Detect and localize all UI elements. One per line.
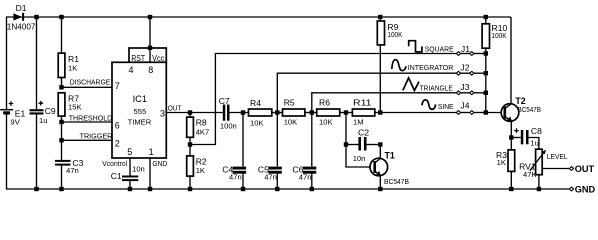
icon: sine wave bbox=[422, 100, 436, 110]
wire: SINE line to common column bbox=[474, 112, 486, 114]
svg-text:47n: 47n bbox=[299, 172, 312, 181]
wire: ground bottom rail bbox=[6, 188, 569, 190]
svg-text:Vcc: Vcc bbox=[152, 53, 165, 63]
node: R2 / ground rail bbox=[188, 187, 192, 191]
svg-text:C8: C8 bbox=[531, 126, 542, 136]
wire: R5 to R6 bbox=[305, 112, 317, 114]
svg-text:J4: J4 bbox=[460, 101, 469, 111]
svg-text:R2: R2 bbox=[196, 156, 207, 166]
node: RST/Vcc junction bbox=[148, 46, 152, 50]
capacitor C5 47n bbox=[258, 113, 282, 190]
node: J1 / column bbox=[484, 51, 488, 55]
jumper J1 bbox=[456, 44, 474, 55]
wire: discharge to IC pin 7 bbox=[62, 86, 113, 88]
wire: T1 base wire bbox=[346, 145, 374, 168]
svg-text:BC547B: BC547B bbox=[518, 105, 542, 114]
resistor R2 1K bbox=[187, 145, 207, 190]
svg-text:OUT: OUT bbox=[168, 104, 182, 113]
svg-text:D1: D1 bbox=[16, 3, 27, 13]
capacitor C6 47n bbox=[292, 113, 316, 190]
wire: TRIANGLE line jumper middle segment bbox=[461, 92, 470, 94]
node: C1 / ground rail bbox=[128, 187, 132, 191]
capacitor C1 10n bbox=[111, 158, 145, 190]
svg-text:OUT: OUT bbox=[575, 164, 595, 174]
potentiometer RV1 47K bbox=[519, 149, 568, 189]
svg-text:C9: C9 bbox=[45, 106, 56, 116]
capacitor C7 100n bbox=[219, 96, 249, 131]
wire: T1 collector up bbox=[379, 145, 381, 159]
svg-text:100K: 100K bbox=[387, 30, 402, 39]
node: R4/R5/C5 junction bbox=[275, 110, 279, 114]
resistor R5 10K bbox=[283, 98, 305, 127]
svg-text:47K: 47K bbox=[523, 170, 537, 179]
node: +V rail / R1 junction bbox=[59, 15, 63, 19]
svg-text:1K: 1K bbox=[196, 166, 205, 175]
svg-text:RST: RST bbox=[131, 53, 145, 63]
wire: R6 to R11 bbox=[340, 112, 353, 114]
node: +V rail / IC supply riser bbox=[148, 15, 152, 19]
svg-text:1: 1 bbox=[149, 147, 154, 157]
svg-text:6: 6 bbox=[115, 121, 120, 131]
svg-text:SQUARE: SQUARE bbox=[425, 44, 454, 53]
wire: T2 emitter down bbox=[510, 121, 512, 137]
node: IC GND / ground rail bbox=[148, 187, 152, 191]
svg-text:SINE: SINE bbox=[438, 102, 454, 111]
resistor R8 4K7 bbox=[187, 113, 210, 145]
wire: column to T2 base bbox=[486, 112, 504, 114]
node: J2 / column bbox=[484, 71, 488, 75]
node: R11/R9/collector junction bbox=[378, 110, 382, 114]
svg-text:47n: 47n bbox=[66, 166, 79, 175]
wire: T2 collector to +V rail bbox=[510, 17, 512, 104]
capacitor C8 1u bbox=[511, 126, 542, 149]
svg-text:47n: 47n bbox=[229, 172, 242, 181]
node: +V rail / C9 junction bbox=[34, 15, 38, 19]
svg-text:4K7: 4K7 bbox=[196, 128, 210, 137]
wire: TRIANGLE line to common column bbox=[474, 92, 486, 94]
svg-text:GND: GND bbox=[152, 159, 167, 168]
svg-text:GND: GND bbox=[575, 185, 596, 195]
wire: common jumper column bbox=[485, 54, 487, 113]
icon: integrator wave bbox=[392, 60, 406, 71]
svg-text:10K: 10K bbox=[250, 118, 264, 127]
svg-text:R8: R8 bbox=[196, 118, 207, 128]
resistor R6 10K bbox=[317, 98, 340, 127]
svg-text:4: 4 bbox=[129, 65, 134, 75]
node: RV1 / ground rail bbox=[537, 187, 541, 191]
svg-text:J3: J3 bbox=[460, 82, 469, 92]
resistor R9 100K bbox=[377, 17, 402, 45]
wire: integrator tap from R4/R5 junction up to INTEGRATOR line bbox=[277, 73, 456, 112]
svg-text:C2: C2 bbox=[358, 128, 369, 138]
svg-text:Vcontrol: Vcontrol bbox=[102, 159, 127, 168]
terminal: OUT bbox=[569, 164, 594, 174]
jumper J3 bbox=[456, 82, 474, 95]
svg-text:R6: R6 bbox=[319, 98, 330, 108]
svg-text:1K: 1K bbox=[68, 64, 77, 73]
svg-text:LEVEL: LEVEL bbox=[547, 152, 568, 161]
node: C2 right / T1 collector node bbox=[378, 142, 382, 146]
wire: INTEGRATOR line jumper middle segment bbox=[461, 72, 470, 74]
node: J4 / column bbox=[484, 110, 488, 114]
transistor Q2 : T2 BC547B bbox=[501, 96, 541, 122]
wire: R6/R11 junction down to C2 node bbox=[345, 113, 347, 145]
svg-text:5: 5 bbox=[127, 147, 132, 157]
svg-text:555: 555 bbox=[134, 107, 147, 116]
svg-text:TRIANGLE: TRIANGLE bbox=[420, 84, 453, 93]
node: C5 / ground rail bbox=[275, 187, 279, 191]
node: T2 emitter node bbox=[509, 135, 513, 139]
node: R6/R11 junction bbox=[344, 110, 348, 114]
svg-text:1K: 1K bbox=[497, 158, 506, 167]
wire: SQUARE line to common column bbox=[474, 53, 486, 55]
wire: R9 riser bbox=[379, 45, 381, 113]
resistor R10 100K bbox=[482, 17, 507, 54]
svg-text:3: 3 bbox=[160, 108, 165, 118]
capacitor C9 bbox=[30, 17, 56, 189]
node: C6 / ground rail bbox=[310, 187, 314, 191]
wire: +V top rail bbox=[6, 16, 511, 18]
svg-text:C7: C7 bbox=[219, 96, 230, 106]
capacitor C4 47n bbox=[222, 113, 246, 190]
transistor Q1 : T1 BC547B bbox=[370, 150, 409, 186]
svg-text:J1: J1 bbox=[461, 44, 470, 54]
svg-text:T1: T1 bbox=[385, 150, 395, 160]
svg-text:10n: 10n bbox=[132, 165, 145, 174]
resistor R11 1M bbox=[352, 98, 374, 127]
wire: SQUARE line jumper middle segment bbox=[461, 53, 470, 55]
wire: trigger to IC pin 2 bbox=[62, 139, 113, 141]
svg-text:47n: 47n bbox=[264, 172, 277, 181]
svg-text:100K: 100K bbox=[492, 31, 507, 40]
IC U1: IC1 555 timer bbox=[112, 48, 166, 158]
svg-text:THRESHOLD: THRESHOLD bbox=[69, 114, 113, 123]
svg-text:BC547B: BC547B bbox=[384, 177, 409, 186]
svg-text:10K: 10K bbox=[319, 118, 333, 127]
node: R5/R6/C6 junction bbox=[310, 110, 314, 114]
resistor R7 15K bbox=[58, 93, 81, 122]
icon: square wave bbox=[409, 41, 422, 52]
svg-text:1M: 1M bbox=[353, 118, 364, 127]
node: C2 left / T1 base node bbox=[344, 142, 348, 146]
svg-text:INTEGRATOR: INTEGRATOR bbox=[408, 63, 454, 72]
jumper J2 bbox=[456, 62, 474, 75]
wire: IC pin1 to ground rail bbox=[149, 158, 151, 190]
wire: R11 to SINE line bbox=[375, 112, 456, 114]
wire: INTEGRATOR line to common column bbox=[474, 72, 486, 74]
wire: square tap from divider up to SQUARE line bbox=[190, 54, 456, 145]
wire: SINE line jumper middle segment bbox=[461, 112, 470, 114]
node: 555 output node bbox=[188, 110, 192, 114]
svg-text:8: 8 bbox=[148, 65, 153, 75]
svg-text:10n: 10n bbox=[353, 154, 366, 163]
icon: triangle wave bbox=[403, 78, 419, 91]
wire: threshold to trigger bbox=[61, 122, 63, 140]
node: R8/R2 divider junction bbox=[188, 142, 192, 146]
wire: T1 emitter to ground rail bbox=[379, 176, 381, 189]
svg-text:R4: R4 bbox=[250, 98, 261, 108]
jumper J4 bbox=[456, 101, 474, 115]
svg-text:1N4007: 1N4007 bbox=[7, 21, 36, 31]
node: T1 emitter / ground rail bbox=[378, 187, 382, 191]
resistor R3 1K bbox=[496, 138, 515, 190]
svg-text:TRIGGER: TRIGGER bbox=[80, 132, 113, 141]
capacitor C2 10n bbox=[346, 128, 380, 163]
battery E1 bbox=[0, 17, 25, 189]
svg-text:R5: R5 bbox=[284, 98, 295, 108]
svg-text:2: 2 bbox=[115, 138, 120, 148]
svg-text:DISCHARGE: DISCHARGE bbox=[70, 78, 111, 87]
svg-text:R1: R1 bbox=[68, 54, 79, 64]
svg-text:1u: 1u bbox=[39, 116, 47, 125]
wire: RV1 wiper to OUT bbox=[542, 168, 569, 170]
svg-text:7: 7 bbox=[115, 81, 120, 91]
node: DISCHARGE junction bbox=[59, 85, 63, 89]
svg-text:J2: J2 bbox=[460, 62, 469, 72]
node: J3 / column bbox=[484, 91, 488, 95]
svg-text:IC1: IC1 bbox=[133, 94, 147, 104]
svg-text:100n: 100n bbox=[220, 121, 237, 130]
node: C7/R4/C4 junction bbox=[241, 110, 245, 114]
resistor R1 1K bbox=[58, 17, 79, 87]
svg-text:R11: R11 bbox=[353, 98, 372, 108]
svg-text:9V: 9V bbox=[11, 118, 21, 127]
svg-text:C1: C1 bbox=[111, 171, 122, 181]
capacitor C3 47n bbox=[55, 140, 84, 189]
wire: R4 to R5 bbox=[272, 112, 283, 114]
node: C4 / ground rail bbox=[241, 187, 245, 191]
terminal: GND bbox=[569, 185, 595, 195]
svg-text:15K: 15K bbox=[68, 103, 82, 112]
wire: +V to RST/Vcc box bbox=[149, 17, 151, 62]
node: +V rail / R10 bbox=[484, 15, 488, 19]
svg-text:10K: 10K bbox=[284, 118, 298, 127]
node: C3 / ground rail bbox=[59, 187, 63, 191]
node: +V rail / R9 bbox=[378, 15, 382, 19]
node: R3 / ground rail bbox=[509, 187, 513, 191]
node: C9 / ground rail junction bbox=[34, 187, 38, 191]
diode D1 bbox=[7, 3, 36, 31]
wire: triangle tap from R5/R6 junction up to TRIANGLE line bbox=[312, 93, 456, 113]
node: THRESHOLD junction bbox=[59, 120, 63, 124]
svg-text:1u: 1u bbox=[530, 139, 538, 148]
wire: threshold to IC pin 6 bbox=[62, 121, 113, 123]
resistor R4 10K bbox=[249, 98, 272, 127]
wire: IC pin 3 output bbox=[166, 112, 223, 114]
svg-text:TIMER: TIMER bbox=[128, 117, 152, 126]
node: TRIGGER junction bbox=[59, 138, 63, 142]
